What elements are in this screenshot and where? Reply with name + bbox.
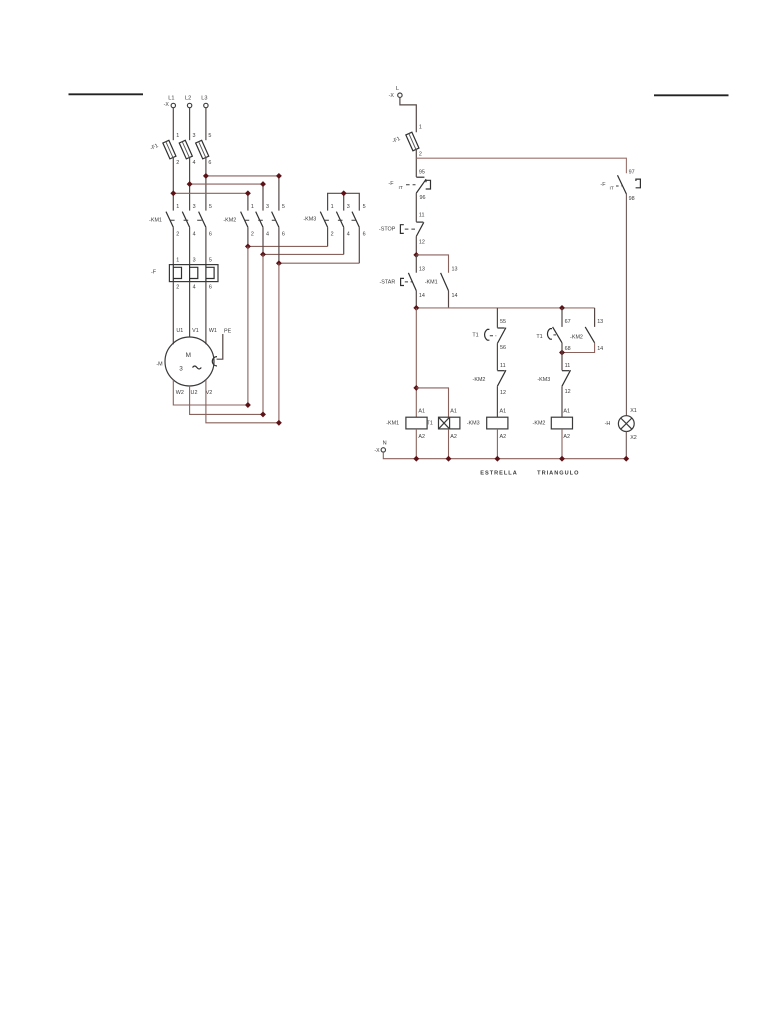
svg-text:56: 56 bbox=[500, 345, 506, 351]
svg-text:2: 2 bbox=[176, 284, 179, 290]
thermal F heater pole 3 bbox=[206, 265, 214, 282]
svg-text:1: 1 bbox=[176, 204, 179, 210]
svg-text:13: 13 bbox=[419, 267, 425, 273]
svg-text:4: 4 bbox=[193, 284, 196, 290]
svg-text:L3: L3 bbox=[201, 96, 207, 102]
wire bus corner to KM2 aux 13 bbox=[594, 308, 596, 327]
svg-text:-F: -F bbox=[388, 181, 394, 187]
junction dot bus branch C bbox=[559, 305, 565, 311]
terminal -X N bbox=[381, 448, 385, 452]
contactor KM1 pole 3 bbox=[199, 212, 206, 228]
svg-text:2: 2 bbox=[419, 152, 422, 158]
svg-text:-M: -M bbox=[156, 361, 163, 367]
wire KM2 NC to KM3 coil bbox=[496, 386, 498, 417]
svg-text:-F1: -F1 bbox=[149, 143, 159, 152]
control bus wire bbox=[416, 307, 594, 309]
svg-text:X2: X2 bbox=[630, 435, 637, 441]
wire KM2 pole3 bottom to KM3 pole3 bottom bbox=[278, 227, 280, 263]
wire thermal to motor U1 bbox=[172, 282, 174, 345]
wire KM1 pole1 to thermal F bbox=[172, 227, 174, 264]
wire motor V2 to KM2 pole3 bbox=[206, 380, 279, 423]
STOP actuator bbox=[400, 225, 403, 234]
svg-text:3: 3 bbox=[193, 204, 196, 210]
contactor KM2 pole 1 bbox=[241, 212, 248, 228]
aux contact KM2 11-12 (NC interlock) bbox=[497, 370, 506, 386]
svg-text:-F: -F bbox=[600, 182, 606, 188]
wire L terminal to fuse F1 bbox=[400, 97, 416, 132]
START actuator bbox=[401, 278, 404, 285]
svg-text:11: 11 bbox=[565, 363, 571, 369]
wire KM2 aux to branch join bbox=[562, 343, 595, 353]
PE conductor bbox=[217, 334, 223, 359]
svg-text:3: 3 bbox=[347, 204, 350, 210]
PE terminal arc on motor bbox=[212, 357, 217, 366]
svg-text:A2: A2 bbox=[418, 434, 425, 440]
svg-text:-KM1: -KM1 bbox=[149, 218, 162, 224]
junction dot T1 coil branch bbox=[413, 385, 419, 391]
wire KM2 pole3 down to delta node bbox=[278, 263, 280, 423]
svg-text:-KM2: -KM2 bbox=[533, 421, 546, 427]
KM3 star bridge wire bbox=[328, 193, 360, 210]
svg-text:ESTRELLA: ESTRELLA bbox=[480, 470, 518, 476]
KM2 mechanical link dashes bbox=[245, 219, 276, 221]
wire KM2 pole2 down to delta node bbox=[262, 254, 264, 414]
contactor KM2 pole 2 bbox=[256, 212, 263, 228]
svg-text:A1: A1 bbox=[450, 408, 457, 414]
branch ESTRELLA: wire bus to T1 NC bbox=[496, 308, 498, 328]
svg-text:11: 11 bbox=[419, 213, 425, 219]
svg-text:12: 12 bbox=[500, 390, 506, 396]
junction dot U2 delta bbox=[260, 411, 266, 417]
svg-text:-KM2: -KM2 bbox=[473, 377, 486, 383]
svg-text:-KM3: -KM3 bbox=[303, 217, 316, 223]
svg-text:-H: -H bbox=[605, 421, 611, 427]
wire T1 coil to rail bbox=[448, 429, 450, 459]
wire rail to KM1 coil bbox=[415, 308, 417, 417]
svg-text:97: 97 bbox=[629, 170, 635, 176]
wire KM2 coil to rail bbox=[561, 429, 563, 459]
junction dot rail lamp bbox=[623, 456, 629, 462]
svg-text:A1: A1 bbox=[418, 408, 425, 414]
wire branch to lamp circuit bbox=[416, 158, 626, 173]
svg-text:6: 6 bbox=[282, 232, 285, 238]
svg-text:96: 96 bbox=[420, 195, 426, 201]
svg-text:55: 55 bbox=[500, 319, 506, 325]
svg-text:6: 6 bbox=[209, 284, 212, 290]
svg-text:-X: -X bbox=[389, 93, 395, 99]
wire L3 fuse to KM1 bbox=[205, 158, 207, 211]
svg-text:A2: A2 bbox=[500, 434, 507, 440]
junction dot L1 feed bbox=[170, 190, 176, 196]
wire KM2 pole1 down to delta node bbox=[247, 246, 249, 405]
wire F branch to lamp: 97-98 contact column bbox=[625, 194, 627, 416]
thermal release hook (F 97-98) bbox=[636, 179, 641, 188]
svg-text:6: 6 bbox=[363, 232, 366, 238]
svg-text:68: 68 bbox=[565, 346, 571, 352]
junction dot W2 delta bbox=[245, 402, 251, 408]
wire T1 NO to KM3 NC bbox=[561, 343, 563, 371]
dashed link START bbox=[405, 281, 412, 283]
svg-text:-STAR: -STAR bbox=[380, 279, 396, 285]
svg-text:-F1: -F1 bbox=[391, 136, 401, 145]
svg-text:TRIANGULO: TRIANGULO bbox=[537, 470, 579, 476]
svg-text:W2: W2 bbox=[176, 390, 184, 396]
wire lamp to rail bbox=[625, 432, 627, 459]
svg-text:3: 3 bbox=[193, 133, 196, 139]
svg-text:-F: -F bbox=[151, 269, 157, 275]
svg-text:4: 4 bbox=[193, 160, 196, 166]
svg-text:-X: -X bbox=[374, 448, 380, 454]
svg-text:5: 5 bbox=[282, 204, 285, 210]
wire STOP to START node bbox=[415, 236, 417, 255]
svg-text:13: 13 bbox=[597, 319, 603, 325]
svg-text:67: 67 bbox=[565, 319, 571, 325]
contactor KM2 pole 3 bbox=[272, 212, 279, 228]
svg-text:L1: L1 bbox=[168, 96, 174, 102]
wire KM1 pole2 to thermal F bbox=[189, 227, 191, 264]
svg-text:A1: A1 bbox=[500, 409, 507, 415]
header rule right bbox=[654, 94, 729, 96]
wire motor W2 to KM2 pole1 bbox=[173, 380, 248, 405]
wire thermal to motor V1 bbox=[189, 282, 191, 338]
wire KM1 coil to rail bbox=[415, 429, 417, 459]
contactor KM3 pole 3 bbox=[352, 212, 359, 228]
junction dot KM2 pole2 bottom bbox=[260, 251, 266, 257]
junction dot rail KM1 bbox=[413, 456, 419, 462]
junction dot rail KM2 bbox=[559, 456, 565, 462]
junction dot KM2 pole5 feed corner bbox=[276, 173, 282, 179]
svg-text:5: 5 bbox=[208, 133, 211, 139]
svg-text:1: 1 bbox=[176, 133, 179, 139]
svg-text:N: N bbox=[383, 441, 387, 447]
junction dot L3 feed bbox=[203, 173, 209, 179]
svg-text:-KM2: -KM2 bbox=[223, 218, 236, 224]
wire START top stub bbox=[415, 255, 417, 273]
wire T1 to KM2 NC bbox=[496, 343, 498, 370]
svg-text:3: 3 bbox=[193, 258, 196, 264]
fuse-switch F1 pole 3 bbox=[196, 140, 209, 159]
thermal contact F 95-96 (NC) bbox=[416, 177, 426, 193]
junction dot below STOP bbox=[413, 252, 419, 258]
wire feed L2 to KM2 pole 3 bbox=[190, 183, 263, 185]
svg-text:5: 5 bbox=[363, 204, 366, 210]
wire KM1 pole3 to thermal F bbox=[205, 227, 207, 264]
svg-text:IT: IT bbox=[610, 186, 614, 192]
wire feed L3 to KM2 pole 5 bbox=[206, 175, 279, 177]
svg-text:X1: X1 bbox=[630, 408, 637, 414]
wire L2 terminal to fuse bbox=[189, 108, 191, 141]
svg-text:V2: V2 bbox=[206, 390, 213, 396]
thermal release hook (F 95-96) bbox=[426, 180, 431, 189]
coil KM2 bbox=[551, 417, 572, 429]
svg-text:T1: T1 bbox=[427, 421, 433, 427]
svg-text:-KM3: -KM3 bbox=[467, 421, 480, 427]
svg-text:3: 3 bbox=[179, 366, 183, 373]
svg-text:2: 2 bbox=[176, 160, 179, 166]
dashed link F NO bbox=[616, 185, 622, 187]
junction dot KM2 pole1 feed corner bbox=[245, 190, 251, 196]
svg-text:4: 4 bbox=[347, 232, 350, 238]
junction dot KM2 pole3 bottom bbox=[276, 260, 282, 266]
svg-text:2: 2 bbox=[251, 232, 254, 238]
svg-text:98: 98 bbox=[629, 196, 635, 202]
terminal -X L1 bbox=[171, 103, 175, 107]
fuse-switch F1 pole 2 bbox=[179, 140, 192, 159]
junction dot KM2 pole1 bottom bbox=[245, 243, 251, 249]
svg-text:-X: -X bbox=[164, 102, 170, 108]
lamp H bbox=[618, 416, 634, 432]
header rule left bbox=[69, 93, 144, 95]
svg-text:PE: PE bbox=[224, 328, 232, 334]
wire L2 fuse to KM1 bbox=[189, 158, 191, 211]
svg-text:14: 14 bbox=[452, 293, 458, 299]
timer delay symbol (T1 NO) bbox=[547, 329, 552, 340]
svg-text:11: 11 bbox=[500, 363, 506, 369]
junction dot rail T1 bbox=[446, 456, 452, 462]
thermal contact F 97-98 (NO) bbox=[618, 175, 627, 194]
svg-text:4: 4 bbox=[266, 232, 269, 238]
timer contact T1 55-56 (NC delayed) bbox=[497, 328, 506, 344]
svg-text:U1: U1 bbox=[176, 328, 183, 334]
dashed link T1 NO bbox=[553, 334, 557, 336]
wire L3 terminal to fuse bbox=[205, 108, 207, 141]
svg-text:A1: A1 bbox=[563, 409, 570, 415]
dashed link STOP bbox=[405, 228, 415, 230]
svg-text:T1: T1 bbox=[536, 334, 542, 340]
wire START to bus bbox=[415, 291, 417, 308]
motor sine symbol bbox=[193, 366, 202, 369]
svg-text:5: 5 bbox=[209, 204, 212, 210]
timer contact T1 67-68 (NO delayed) bbox=[553, 327, 562, 343]
thermal F heater pole 2 bbox=[190, 265, 198, 282]
svg-text:-STOP: -STOP bbox=[379, 226, 396, 232]
wire motor U2 to KM2 pole2 bbox=[190, 386, 263, 414]
branch TRIANGULO: wire bus to T1 NO bbox=[561, 308, 563, 327]
aux contact KM2 13-14 (NO hold) bbox=[585, 327, 594, 343]
wire fuse to F contact 95 bbox=[415, 150, 417, 177]
terminal L3 bbox=[204, 103, 208, 107]
svg-text:2: 2 bbox=[176, 232, 179, 238]
svg-text:4: 4 bbox=[193, 232, 196, 238]
coil KM3 bbox=[487, 417, 508, 429]
junction dot branch C join bbox=[559, 350, 565, 356]
svg-text:12: 12 bbox=[419, 240, 425, 246]
svg-text:-KM1: -KM1 bbox=[425, 279, 438, 285]
junction dot L2 feed bbox=[187, 181, 193, 187]
wire KM3 NC to KM2 coil bbox=[561, 386, 563, 417]
neutral rail wire bbox=[383, 452, 626, 459]
svg-text:1: 1 bbox=[331, 204, 334, 210]
KM1 mechanical link dashes bbox=[170, 219, 203, 221]
timer delay symbol (T1 NC) bbox=[485, 329, 490, 340]
junction dot bus left bbox=[413, 305, 419, 311]
svg-text:-KM1: -KM1 bbox=[386, 421, 399, 427]
svg-text:A2: A2 bbox=[563, 434, 570, 440]
dashed link T1 NC bbox=[490, 335, 496, 337]
fuse F1 (control) bbox=[406, 132, 419, 151]
wire KM2 pole2 bottom to KM3 pole2 bottom bbox=[262, 227, 264, 254]
svg-text:2: 2 bbox=[331, 232, 334, 238]
wire L1 fuse to KM1 bbox=[172, 158, 174, 211]
svg-text:14: 14 bbox=[597, 346, 603, 352]
terminal -X L (control) bbox=[398, 93, 402, 97]
svg-text:-KM3: -KM3 bbox=[537, 377, 550, 383]
wire KM3 coil to rail bbox=[496, 429, 498, 459]
svg-text:14: 14 bbox=[419, 293, 425, 299]
svg-text:95: 95 bbox=[419, 170, 425, 176]
pushbutton STOP 11-12 (NC) bbox=[416, 222, 424, 236]
svg-text:L: L bbox=[396, 86, 399, 92]
svg-text:A2: A2 bbox=[450, 434, 457, 440]
wire KM1 aux to bus bbox=[448, 291, 450, 308]
wire feed L1 to KM2 pole 1 bbox=[173, 192, 248, 194]
svg-text:1: 1 bbox=[176, 258, 179, 264]
junction dot star bridge bbox=[341, 190, 347, 196]
coil KM1 bbox=[406, 417, 427, 429]
svg-text:5: 5 bbox=[209, 258, 212, 264]
wire branch to KM1 aux 13 bbox=[416, 255, 448, 273]
wire L1 terminal to fuse bbox=[172, 108, 174, 141]
svg-text:L2: L2 bbox=[185, 96, 191, 102]
motor M circle bbox=[165, 337, 214, 386]
wire thermal to motor W1 bbox=[205, 282, 207, 345]
aux contact KM3 11-12 (NC interlock) bbox=[562, 370, 571, 386]
svg-text:IT: IT bbox=[399, 185, 403, 191]
thermal overload relay F box bbox=[169, 265, 218, 282]
junction dot rail KM3 bbox=[494, 456, 500, 462]
svg-text:1: 1 bbox=[251, 204, 254, 210]
KM3 mechanical link dashes bbox=[324, 219, 356, 221]
svg-text:6: 6 bbox=[208, 160, 211, 166]
dashed link F NC bbox=[406, 184, 416, 186]
junction dot KM2 pole3 feed corner bbox=[260, 181, 266, 187]
contactor KM3 pole 1 bbox=[320, 212, 327, 228]
terminal L2 bbox=[187, 103, 191, 107]
svg-text:-KM2: -KM2 bbox=[570, 334, 583, 340]
svg-text:U2: U2 bbox=[191, 390, 198, 396]
svg-text:T1: T1 bbox=[472, 333, 478, 339]
wire branch to T1 coil bbox=[416, 388, 448, 417]
svg-text:M: M bbox=[186, 352, 191, 359]
coil T1 (timer) bbox=[439, 417, 460, 429]
junction dot V2 delta bbox=[276, 420, 282, 426]
fuse-switch F1 pole 1 bbox=[163, 140, 176, 159]
svg-text:1: 1 bbox=[419, 125, 422, 131]
contactor KM3 pole 2 bbox=[336, 212, 343, 228]
svg-text:6: 6 bbox=[209, 232, 212, 238]
svg-text:13: 13 bbox=[452, 267, 458, 273]
pushbutton START 13-14 (NO) bbox=[408, 273, 416, 291]
thermal F heater pole 1 bbox=[173, 265, 181, 282]
contactor KM1 pole 2 bbox=[182, 212, 189, 228]
svg-text:12: 12 bbox=[565, 389, 571, 395]
aux contact KM1 13-14 (NO) bbox=[441, 273, 449, 291]
svg-text:V1: V1 bbox=[192, 328, 199, 334]
svg-text:3: 3 bbox=[266, 204, 269, 210]
wire KM2 pole1 bottom to KM3 pole1 bottom bbox=[247, 227, 249, 246]
svg-text:W1: W1 bbox=[209, 328, 217, 334]
contactor KM1 pole 1 bbox=[166, 212, 173, 228]
wire F96 to STOP bbox=[415, 193, 417, 222]
